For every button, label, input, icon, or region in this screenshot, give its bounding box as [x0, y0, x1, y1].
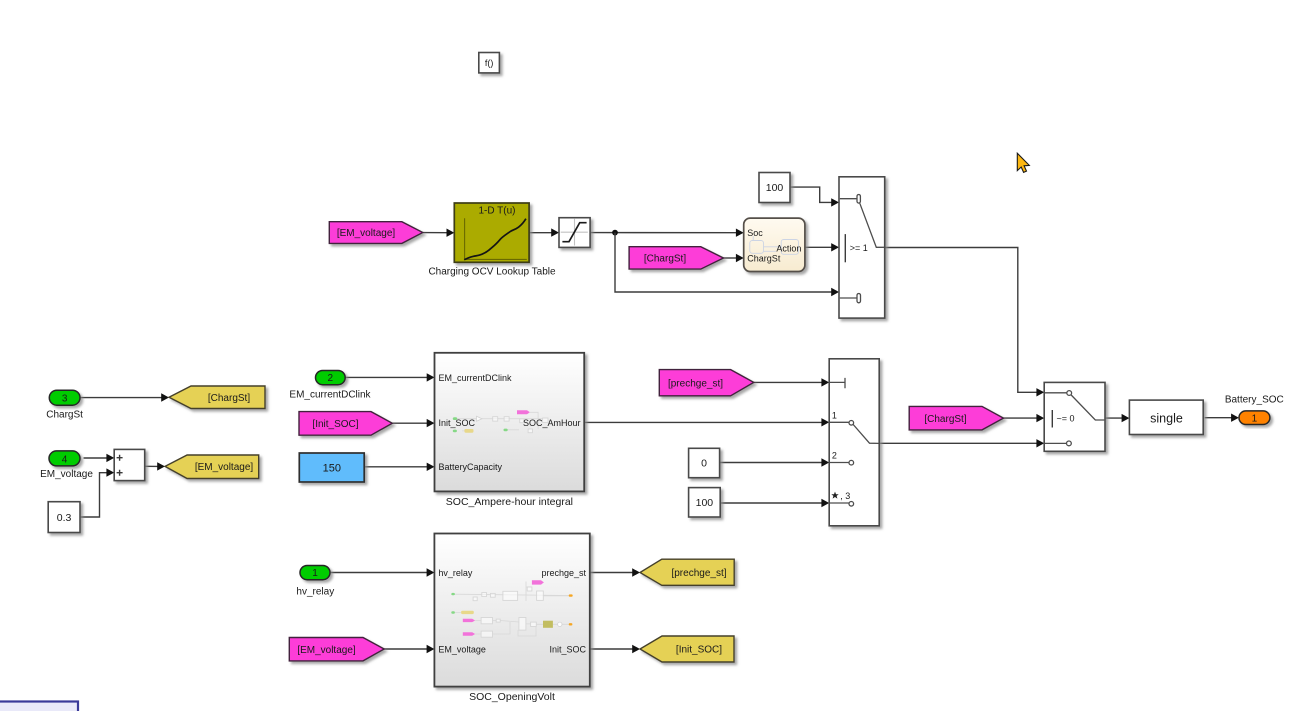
- svg-text:single: single: [1150, 411, 1183, 425]
- svg-text:hv_relay: hv_relay: [438, 568, 473, 578]
- svg-text:150: 150: [323, 463, 341, 475]
- svg-text:>= 1: >= 1: [850, 243, 868, 253]
- svg-text:f(): f(): [485, 58, 494, 68]
- svg-text:100: 100: [766, 182, 784, 194]
- svg-text:2: 2: [832, 450, 837, 460]
- svg-text:1-D T(u): 1-D T(u): [478, 206, 515, 217]
- svg-text:Init_SOC: Init_SOC: [439, 418, 476, 428]
- svg-text:[ChargSt]: [ChargSt]: [644, 254, 686, 265]
- svg-text:[Init_SOC]: [Init_SOC]: [676, 645, 722, 656]
- svg-text:3: 3: [62, 394, 68, 405]
- svg-text:SOC_OpeningVolt: SOC_OpeningVolt: [469, 691, 555, 703]
- svg-text:0: 0: [701, 458, 707, 470]
- svg-text:Action: Action: [776, 243, 801, 253]
- svg-text:prechge_st: prechge_st: [541, 568, 586, 578]
- svg-text:100: 100: [696, 497, 714, 509]
- svg-text:1: 1: [312, 568, 318, 579]
- svg-text:Soc: Soc: [747, 228, 763, 238]
- svg-text:ChargSt: ChargSt: [747, 254, 781, 264]
- svg-text:[ChargSt]: [ChargSt]: [924, 414, 966, 425]
- svg-text:[EM_voltage]: [EM_voltage]: [297, 645, 356, 656]
- svg-text:EM_voltage: EM_voltage: [438, 644, 486, 654]
- svg-text:~= 0: ~= 0: [1057, 414, 1075, 424]
- svg-text:, 3: , 3: [840, 491, 850, 501]
- svg-text:EM_currentDClink: EM_currentDClink: [439, 373, 513, 383]
- svg-text:[ChargSt]: [ChargSt]: [208, 393, 250, 404]
- svg-text:[EM_voltage]: [EM_voltage]: [337, 228, 396, 239]
- svg-text:1: 1: [1252, 414, 1258, 425]
- svg-text:ChargSt: ChargSt: [46, 409, 83, 420]
- svg-text:[prechge_st]: [prechge_st]: [671, 568, 726, 579]
- svg-text:EM_voltage: EM_voltage: [40, 469, 93, 480]
- svg-text:SOC_Ampere-hour integral: SOC_Ampere-hour integral: [446, 496, 573, 508]
- svg-text:[prechge_st]: [prechge_st]: [668, 378, 723, 389]
- svg-text:Battery_SOC: Battery_SOC: [1225, 394, 1284, 405]
- svg-text:hv_relay: hv_relay: [296, 587, 334, 598]
- svg-text:BatteryCapacity: BatteryCapacity: [439, 462, 503, 472]
- svg-text:SOC_AmHour: SOC_AmHour: [523, 418, 581, 428]
- svg-text:[EM_voltage]: [EM_voltage]: [195, 462, 254, 473]
- svg-text:1: 1: [832, 410, 837, 420]
- svg-text:4: 4: [62, 454, 68, 465]
- svg-text:Init_SOC: Init_SOC: [549, 644, 586, 654]
- svg-text:0.3: 0.3: [57, 512, 72, 524]
- svg-text:EM_currentDClink: EM_currentDClink: [289, 390, 371, 401]
- svg-text:Charging OCV Lookup Table: Charging OCV Lookup Table: [428, 267, 556, 278]
- svg-text:[Init_SOC]: [Init_SOC]: [312, 419, 358, 430]
- svg-text:2: 2: [328, 373, 334, 384]
